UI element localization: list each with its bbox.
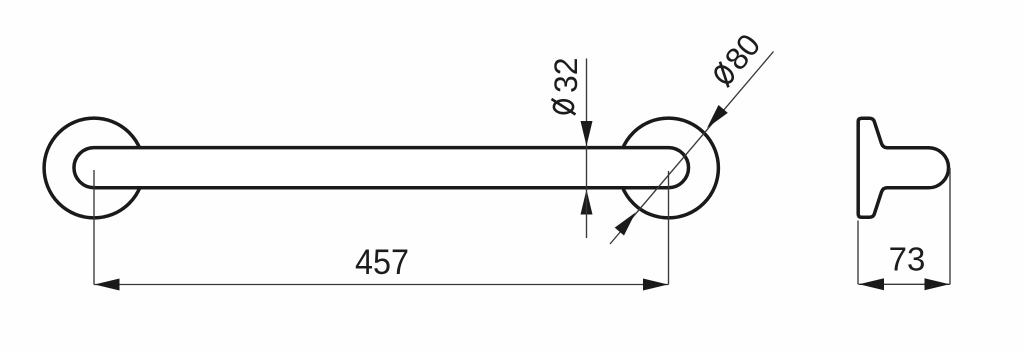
dimension 457: right arrowhead <box>643 279 668 291</box>
dimension Ø80: leader line <box>610 52 774 245</box>
dimension 457: right extension line <box>668 171 670 285</box>
dimension Ø32: upper arrowhead <box>581 121 593 146</box>
dimension Ø32: line through bar <box>586 146 588 190</box>
dimension Ø80: upper arrowhead <box>707 105 728 128</box>
svg-text:73: 73 <box>889 241 926 278</box>
dimension Ø80: diameter symbol <box>711 62 738 88</box>
svg-text:32: 32 <box>548 57 584 93</box>
grab bar (front view stadium) <box>74 148 689 188</box>
dimension 73: dimension line <box>859 283 951 285</box>
dimension 457: left extension line <box>93 170 95 285</box>
dimension 457: left arrowhead <box>95 279 120 291</box>
svg-text:457: 457 <box>355 242 409 282</box>
dimension 73: right arrowhead <box>925 278 950 290</box>
dimension Ø32: lower extension line <box>586 190 588 239</box>
dimension 73: left extension line <box>857 221 859 285</box>
dimension Ø32: diameter symbol <box>552 99 576 115</box>
right flange circle <box>619 118 719 218</box>
dimension 73: right extension line <box>949 168 951 284</box>
left flange circle <box>44 118 144 218</box>
dimension Ø32: lower arrowhead <box>581 190 593 215</box>
dimension 73: left arrowhead <box>859 278 884 290</box>
dimension 457: dimension line <box>94 284 669 286</box>
dimension Ø32: upper extension line <box>586 59 588 147</box>
side view flange and bar profile <box>858 118 948 217</box>
dimension Ø80: lower arrowhead <box>615 213 636 236</box>
